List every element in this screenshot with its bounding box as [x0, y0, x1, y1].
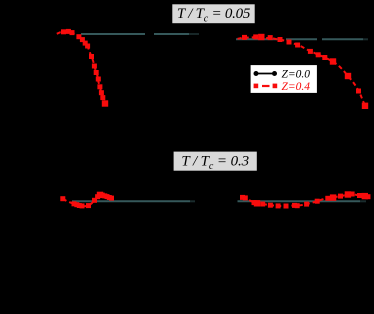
square markers Z=0.4, top panel right — [242, 34, 368, 109]
teal dashed bulk-gap line, top panel right — [236, 38, 368, 40]
teal dashed bulk-gap line, bottom panel right — [238, 200, 367, 202]
red dashed curve Z=0.4, bottom panel left — [63, 195, 114, 206]
title box T/Tc = 0.3 — [173, 151, 258, 172]
svg-text:Z=0.0: Z=0.0 — [282, 68, 311, 80]
title box T/Tc = 0.05 — [172, 4, 256, 25]
square markers Z=0.4, bottom panel right — [240, 191, 371, 208]
svg-text:T / Tc = 0.05: T / Tc = 0.05 — [177, 6, 251, 25]
square markers Z=0.4, top panel left — [61, 29, 108, 107]
legend entry Z=0.4: red dashed line with square markers — [262, 85, 270, 87]
teal dashed bulk-gap line, top panel left — [81, 33, 199, 35]
red dashed curve Z=0.4, top panel left — [57, 31, 105, 103]
svg-text:T / Tc = 0.3: T / Tc = 0.3 — [181, 154, 249, 173]
legend entry Z=0.0: black line with circle markers — [255, 73, 277, 75]
svg-text:Z=0.4: Z=0.4 — [282, 81, 311, 93]
legend box — [250, 65, 318, 94]
square markers Z=0.4, bottom panel left — [60, 192, 114, 209]
teal dashed bulk-gap line, bottom panel left — [72, 200, 195, 202]
red dashed curve Z=0.4, top panel right — [238, 37, 366, 106]
red dashed curve Z=0.4, bottom panel right — [243, 194, 369, 206]
